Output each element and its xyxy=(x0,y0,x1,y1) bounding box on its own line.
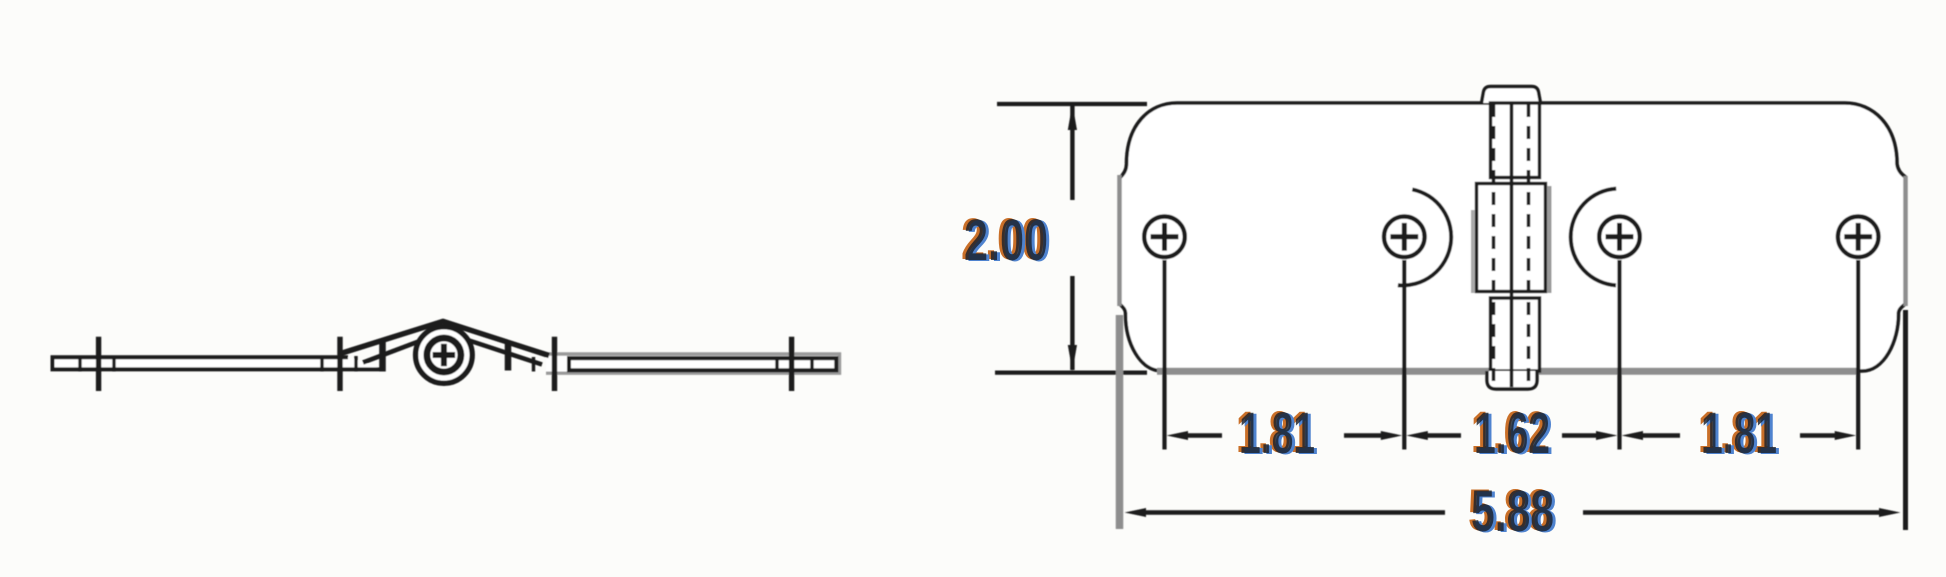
right leaf gray outline xyxy=(546,354,840,373)
label 5.88 xyxy=(1468,478,1557,545)
centerline cross 3 xyxy=(552,337,557,391)
dim 2.00 line upper segment xyxy=(1070,106,1074,200)
dim 2.00 line lower segment xyxy=(1070,276,1074,370)
label 1.62 xyxy=(1471,400,1553,467)
plate bottom edge (gray) xyxy=(1157,368,1860,375)
label 1.81 xyxy=(1236,400,1318,467)
dim 5.88 left extension line (gray) xyxy=(1116,315,1124,529)
hinge pin bottom cap xyxy=(1487,371,1537,389)
right ramp inner surface xyxy=(451,335,542,365)
right leaf start bar xyxy=(505,343,512,371)
screw hole 4 xyxy=(1838,217,1879,258)
dim 1.81 left arrow xyxy=(1167,431,1189,440)
swage arc around hole 2 xyxy=(1398,189,1451,285)
dim 5.88 left line xyxy=(1144,510,1445,515)
label 2.00 xyxy=(961,207,1051,274)
dim 2.00 top arrow xyxy=(1068,104,1077,130)
hole edge ticks, left leaf hole 2 xyxy=(322,356,356,372)
label 1.81 right xyxy=(1698,400,1780,467)
left ramp inner surface xyxy=(363,335,437,363)
svg-text:1.81: 1.81 xyxy=(1701,401,1777,466)
row-1 extension line hole 4 xyxy=(1856,260,1860,450)
screw hole 1 xyxy=(1144,217,1185,258)
knuckle pin ring (side view) xyxy=(427,338,461,372)
dim 1.62 right line xyxy=(1562,433,1598,438)
centerline cross 2 xyxy=(337,337,342,391)
svg-text:1.62: 1.62 xyxy=(1474,401,1550,466)
hinge plate outline xyxy=(1120,103,1906,371)
pin cross (side view) xyxy=(433,344,455,366)
svg-text:5.88: 5.88 xyxy=(1471,479,1554,544)
dim 1.81b left line xyxy=(1641,433,1680,438)
dim 1.62 right arrow xyxy=(1596,431,1618,440)
dim 1.62 left arrow xyxy=(1406,431,1428,440)
row-1 extension line hole 1 xyxy=(1162,260,1166,450)
dim 1.62 left line xyxy=(1426,433,1461,438)
screw hole 2 xyxy=(1384,217,1425,258)
knuckle middle shadow right xyxy=(1548,186,1552,293)
dim 5.88 left arrow xyxy=(1125,508,1147,517)
hinge pin head (top) xyxy=(1482,87,1541,104)
pin center line (solid) xyxy=(1510,103,1514,387)
row-1 extension line hole 2 xyxy=(1402,260,1406,450)
right leaf (side view) xyxy=(569,358,836,370)
svg-text:2.00: 2.00 xyxy=(964,208,1048,273)
dim 1.81b right arrow xyxy=(1835,431,1857,440)
centerline cross 1 xyxy=(96,337,101,391)
knuckle middle shadow left xyxy=(1471,210,1475,293)
hole edge ticks, left leaf hole 1 xyxy=(80,356,114,372)
screw hole 3 xyxy=(1599,217,1640,258)
dim 1.81b right line xyxy=(1800,433,1838,438)
plate right edge (gray) xyxy=(1903,176,1908,306)
svg-text:1.81: 1.81 xyxy=(1239,401,1315,466)
plate left edge (gray) xyxy=(1117,175,1122,306)
dim 1.81 left line xyxy=(1186,433,1222,438)
dim 5.88 right extension line xyxy=(1903,310,1908,530)
dim 5.88 right arrow xyxy=(1879,508,1901,517)
dim 2.00 bottom extension line xyxy=(995,371,1147,375)
dim 1.81 right line xyxy=(1344,433,1383,438)
dim 2.00 bottom arrow xyxy=(1068,345,1077,371)
swage arc around hole 3 xyxy=(1571,189,1616,286)
left leaf end bar xyxy=(379,341,386,372)
leaf ramp tent outline xyxy=(339,321,549,355)
dim 1.81 right arrow xyxy=(1381,431,1403,440)
hole edge ticks, right leaf hole 3 xyxy=(532,357,535,372)
centerline cross 4 xyxy=(789,337,794,391)
dim 1.81b left arrow xyxy=(1622,431,1644,440)
knuckle bottom section xyxy=(1491,298,1540,371)
pin hidden line left (dashed) xyxy=(1492,104,1496,385)
dim 5.88 right line xyxy=(1583,510,1882,515)
hole edge ticks, right leaf hole 4 xyxy=(777,357,812,372)
row-1 extension line hole 3 xyxy=(1617,260,1621,450)
knuckle outer circle (side view) xyxy=(416,327,473,384)
pin hidden line right (dashed) xyxy=(1527,104,1531,385)
knuckle middle section xyxy=(1477,184,1546,292)
dim 2.00 top extension line xyxy=(997,102,1147,106)
left leaf (side view) xyxy=(53,357,385,369)
knuckle top section xyxy=(1491,103,1540,178)
